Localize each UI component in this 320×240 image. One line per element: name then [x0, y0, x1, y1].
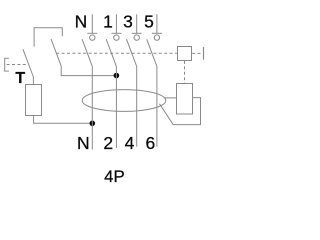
- trip linkage (dashed): [56, 52, 177, 54]
- svg-text:4P: 4P: [104, 167, 125, 186]
- svg-text:T: T: [15, 70, 25, 87]
- linkage (dashed, mechanism to trip relay): [184, 61, 186, 84]
- test switch blade: [23, 49, 34, 77]
- mechanism box: [178, 47, 192, 61]
- wire (blade pivot to resistor): [32, 77, 34, 84]
- wire (auxiliary contact to phase 1 conductor): [61, 66, 116, 76]
- wire (phase 3 conductor): [136, 66, 138, 146]
- terminal 5 (supply side): [152, 14, 162, 40]
- svg-text:4: 4: [125, 133, 135, 153]
- terminal N (supply side): [87, 14, 97, 40]
- switch blade pole 5: [147, 39, 157, 66]
- svg-text:6: 6: [146, 133, 156, 153]
- node (junction on phase 1 conductor): [114, 73, 120, 79]
- wire (phase 5 conductor): [156, 66, 158, 146]
- svg-text:N: N: [77, 133, 90, 153]
- test button linkage (dashed): [7, 64, 29, 66]
- wire (resistor to N conductor): [34, 116, 93, 123]
- test resistor: [26, 85, 42, 116]
- svg-text:2: 2: [103, 133, 113, 153]
- test button T (pushbutton bracket): [5, 58, 9, 71]
- terminal 3 (supply side): [132, 14, 142, 40]
- wire (link between test contact and auxiliary contact): [34, 28, 62, 47]
- svg-text:3: 3: [123, 12, 133, 32]
- svg-text:1: 1: [103, 12, 113, 32]
- svg-text:5: 5: [144, 12, 154, 32]
- linkage end stop: [203, 47, 205, 60]
- wire (N conductor): [91, 66, 93, 149]
- switch blade pole 1: [106, 39, 116, 66]
- wire (phase 1 conductor): [115, 66, 117, 148]
- wire (toroid secondary lower lead): [160, 98, 201, 125]
- trip relay coil: [177, 84, 193, 115]
- switch blade pole N: [82, 39, 92, 66]
- linkage (dashed, mechanism to stop): [192, 52, 203, 54]
- svg-text:N: N: [75, 12, 88, 32]
- terminal 1 (supply side): [111, 14, 121, 40]
- toroid core: [82, 90, 166, 112]
- node (junction on N conductor): [90, 121, 96, 127]
- wire (toroid secondary upper lead): [164, 97, 177, 99]
- switch blade pole 3: [127, 39, 137, 66]
- auxiliary test contact blade: [51, 39, 61, 66]
